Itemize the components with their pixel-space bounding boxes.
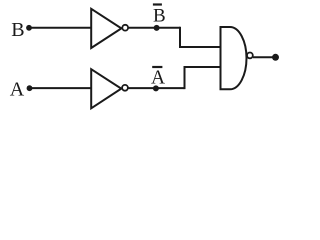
NAND gate U3 body	[221, 27, 247, 89]
svg-text:B: B	[11, 19, 24, 41]
node A terminal dot	[27, 85, 33, 91]
wire Bbar to NAND U3 input 1	[180, 27, 221, 47]
wire U1 output to node Bbar	[128, 27, 180, 29]
inverter U2 (bottom NOT gate)	[91, 69, 121, 108]
wire B to inverter U1	[29, 27, 91, 29]
svg-text:A: A	[10, 78, 25, 100]
svg-text:A: A	[151, 67, 165, 88]
node B terminal dot	[26, 25, 32, 31]
wire Abar to NAND U3 input 2	[185, 67, 221, 89]
inverter U1 output bubble	[122, 25, 128, 31]
node Bbar junction dot	[154, 25, 160, 31]
inverter U1 (top NOT gate)	[91, 9, 121, 48]
output terminal dot	[272, 54, 279, 61]
wire U2 output to node Abar	[128, 87, 185, 89]
wire U3 output	[253, 56, 276, 58]
svg-text:B: B	[153, 5, 166, 26]
inverter U2 output bubble	[122, 85, 128, 91]
NAND gate U3 output bubble	[247, 53, 253, 59]
node Abar label	[151, 67, 165, 88]
wire A to inverter U2	[30, 87, 92, 89]
node Abar junction dot	[153, 85, 159, 91]
node Bbar label	[153, 5, 166, 27]
